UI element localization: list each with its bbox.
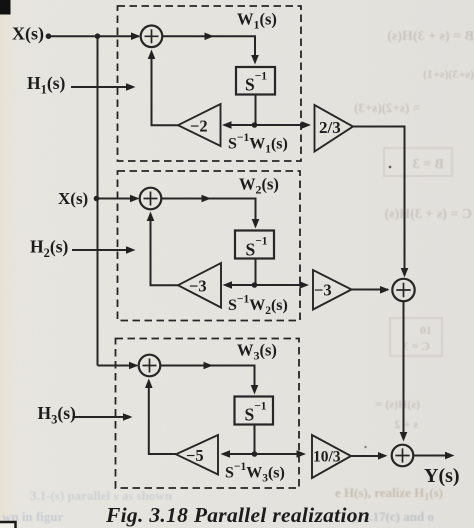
gain G1 triangle (2/3) <box>315 105 354 152</box>
scan speck <box>364 446 366 448</box>
wire node N2 to gain G2 (-3) <box>255 284 306 286</box>
svg-text:Y(s): Y(s) <box>424 465 460 487</box>
svg-text:−3: −3 <box>189 277 207 296</box>
svg-text:Fig. 3.18 Parallel realization: Fig. 3.18 Parallel realization <box>105 503 370 527</box>
arrow into integrator1 <box>251 55 259 65</box>
wire X bus vertical <box>97 36 99 365</box>
arrow output Y(s) <box>445 452 455 460</box>
wire SB to Y(s) output <box>413 455 448 457</box>
arrow into SB from top <box>400 432 408 442</box>
wire G3 output to summer SB <box>351 455 378 457</box>
dashed box section 2 <box>118 171 301 321</box>
svg-text:s + 2: s + 2 <box>394 417 418 431</box>
wire H3(s) input <box>73 416 129 418</box>
svg-text:= (s+2)(s+3): = (s+2)(s+3) <box>354 100 420 115</box>
svg-text:10: 10 <box>420 323 432 337</box>
arrow mid wire row3 <box>204 362 214 370</box>
gain A3 triangle (-5) <box>176 435 218 475</box>
wire X bus branch to summer S2 <box>98 198 138 200</box>
arrow feedback into S2 <box>147 212 155 222</box>
svg-text:10/3: 10/3 <box>313 449 341 466</box>
arrow into SA from top <box>401 268 409 278</box>
arrow feedback into S3 <box>145 379 153 389</box>
wire node N3 to gain A3 (-5) <box>224 453 255 455</box>
wire S1 to integrator 1 <box>162 36 255 60</box>
wire node N2 to gain A2 (-3) <box>226 284 255 286</box>
wire G1 output to summer SA <box>353 127 405 275</box>
summing junction SA (right, middle) <box>392 279 414 301</box>
arrow into integrator3 <box>251 385 259 395</box>
svg-text:C = (s + 3)H(s): C = (s + 3)H(s) <box>384 207 472 222</box>
arrow into S2 <box>130 195 140 203</box>
svg-text:−5: −5 <box>186 446 204 465</box>
wire integrator2 output to node N2 <box>255 259 257 286</box>
arrow mid wire row1 <box>205 33 215 41</box>
summing junction S2 <box>140 188 162 210</box>
integrator block U3 (S^-1) <box>235 397 274 425</box>
svg-text:−3: −3 <box>314 281 332 300</box>
svg-text:B = 3: B = 3 <box>413 157 444 172</box>
wire G2 output to summer SA <box>352 289 389 291</box>
svg-text:2/3: 2/3 <box>319 118 341 137</box>
wire H1(s) input <box>71 86 131 88</box>
dashed box section 1 <box>118 6 302 161</box>
summing junction S1 <box>141 26 163 48</box>
svg-text:(s)H(s) =: (s)H(s) = <box>375 397 420 411</box>
wire A2 to S2 feedback <box>151 214 179 285</box>
arrow into gain G3 <box>297 450 307 458</box>
summing junction SB (right, bottom) <box>392 445 414 467</box>
wire SA to SB <box>403 301 405 435</box>
arrow into gain G2 <box>300 281 310 289</box>
junction node dot bus row1 <box>95 33 101 39</box>
gain A1 triangle (-2) <box>178 104 221 146</box>
show-through (back of page) faint text <box>354 29 474 431</box>
svg-text:3.1-(s) parallel s as shown: 3.1-(s) parallel s as shown <box>30 488 173 503</box>
wire S2 to integrator 2 <box>161 199 255 225</box>
wire H2(s) input <box>72 249 131 251</box>
wire X(s) row1 to summer S1 <box>49 35 140 37</box>
svg-text:X(s): X(s) <box>12 24 44 45</box>
svg-text:H1(s): H1(s) <box>27 73 66 97</box>
svg-text:−2: −2 <box>190 117 208 136</box>
junction node dot X(s) row1 start <box>46 33 52 39</box>
svg-text:H3(s): H3(s) <box>38 403 77 427</box>
scan speck <box>389 166 392 169</box>
junction node dot N2 <box>252 282 258 288</box>
arrow into integrator2 <box>252 219 260 229</box>
svg-text:B = (s + 3)H(s): B = (s + 3)H(s) <box>387 29 474 44</box>
gain G2 triangle (-3) <box>313 270 352 310</box>
wire A1 to S1 feedback <box>152 52 179 125</box>
arrow into SA from left <box>380 286 390 294</box>
gain G3 triangle (10/3) <box>312 435 351 478</box>
wire integrator1 output to node N1 <box>255 95 257 126</box>
integrator block U2 (S^-1) <box>235 231 274 259</box>
integrator block U1 (S^-1) <box>236 67 275 95</box>
wire integrator3 output to node N3 <box>254 425 256 455</box>
arrow H3 input <box>123 413 133 421</box>
dashed box section 3 <box>116 339 300 489</box>
summing junction S3 <box>139 355 161 377</box>
wire node N3 to gain G3 (10/3) <box>255 453 303 455</box>
arrow H2 input <box>126 246 136 254</box>
arrow into gain A2 <box>223 281 233 289</box>
svg-text:C = 3: C = 3 <box>402 339 430 353</box>
wire S3 to integrator 3 <box>160 366 254 390</box>
arrow into S3 <box>129 362 139 370</box>
arrow into gain A3 <box>221 450 231 458</box>
arrow mid wire row2 <box>202 195 212 203</box>
wire node N1 to gain G1 (2/3) <box>255 124 308 126</box>
junction node dot N3 <box>252 451 258 457</box>
arrow into S1 <box>131 32 141 40</box>
arrow feedback into S1 <box>148 50 156 60</box>
arrow into gain A1 <box>222 121 232 129</box>
svg-text:H2(s): H2(s) <box>30 237 69 261</box>
wire node N1 to gain A1 (-2) <box>226 124 255 126</box>
scan corner box bottom-left <box>0 522 16 528</box>
arrow into gain G1 <box>302 121 312 129</box>
junction node dot bus row2 <box>94 196 100 202</box>
wire A3 to S3 feedback <box>149 381 176 454</box>
svg-text:X(s): X(s) <box>58 189 88 208</box>
junction node dot N1 <box>252 122 258 128</box>
scan corner mark (black square top-left) <box>0 0 11 15</box>
svg-text:(s+3)(s+1): (s+3)(s+1) <box>423 67 474 81</box>
arrow into SB from left <box>378 452 388 460</box>
gain A2 triangle (-3) <box>178 263 221 308</box>
arrow H1 input <box>126 83 136 91</box>
wire X bus to summer S3 <box>98 365 138 367</box>
